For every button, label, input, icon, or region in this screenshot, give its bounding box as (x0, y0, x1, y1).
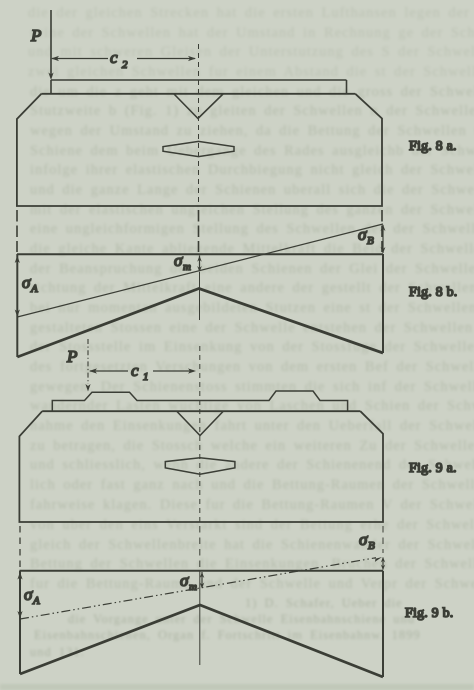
projection dashes left (8a to 8b) (16, 210, 18, 252)
linear stress dash-dot line (Fig 9b) (20, 558, 376, 619)
bearing strip with pads (Fig 9a) (52, 391, 347, 411)
svg-text:σ: σ (180, 571, 189, 590)
svg-text:m: m (189, 581, 197, 593)
left edge (Fig 9b) (19, 571, 21, 674)
svg-text:σ: σ (359, 530, 368, 549)
centering triangle (Fig 9a) (177, 412, 223, 436)
axis top line (Fig 9b) (20, 570, 384, 572)
projection dash centre (9a to 9b) (199, 526, 201, 569)
svg-text:P: P (30, 26, 41, 45)
svg-text:A: A (30, 283, 38, 295)
dimension c1 arrow line (89, 368, 196, 373)
svg-text:Fig. 9 b.: Fig. 9 b. (405, 606, 453, 621)
bolt lens (Fig 8a) (163, 141, 234, 156)
svg-text:Fig. 9 a.: Fig. 9 a. (409, 461, 457, 476)
svg-text:A: A (32, 595, 40, 607)
load line dash-dot (Fig 9a) (85, 339, 90, 392)
centre line through Fig 9b (199, 571, 201, 665)
svg-text:σ: σ (24, 585, 33, 604)
sigma_m arrow (Fig 8b) (197, 256, 202, 273)
svg-text:σ: σ (22, 273, 31, 292)
sigma_A arrow (Fig 8b) (15, 256, 20, 318)
svg-text:P: P (66, 347, 77, 366)
svg-text:c: c (110, 48, 118, 67)
sigma_m arrow (Fig 9b) (200, 572, 205, 589)
centering triangle (Fig 8a) (174, 94, 223, 119)
linear stress line (Fig 8b) (17, 224, 383, 317)
svg-text:m: m (183, 261, 191, 273)
svg-text:2: 2 (122, 59, 128, 71)
right edge (Fig 9b) (382, 571, 384, 677)
sigma_A arrow (Fig 9b) (17, 572, 22, 619)
projection dashes centre (8a to 8b) (198, 210, 200, 252)
centre dashed line (Fig 9) (199, 346, 201, 522)
arrowhead of dash-dot line (Fig 9b) (373, 557, 382, 562)
dimension c2 arrow line (51, 56, 196, 61)
projection dashes right (8a to 8b) (381, 210, 383, 252)
load P line (Fig 8a) (48, 10, 53, 94)
rail outline (Fig 9a) (19, 411, 383, 522)
centre line through Fig 8b (199, 272, 201, 320)
projection dash left (9a to 9b) (19, 526, 21, 569)
svg-text:B: B (367, 235, 374, 247)
contact strip right end (346, 80, 348, 94)
svg-text:c: c (131, 361, 139, 380)
contact strip top line (Fig 8a) (51, 79, 347, 81)
svg-text:Fig. 8 b.: Fig. 8 b. (409, 285, 457, 300)
svg-text:B: B (368, 540, 375, 552)
stress profile V (Fig 8b) (17, 289, 383, 358)
centre dashed line (Fig 8) (198, 44, 200, 205)
projection dash right (9a to 9b) (382, 526, 384, 553)
svg-text:1: 1 (143, 371, 149, 383)
svg-text:Fig. 8 a.: Fig. 8 a. (409, 139, 457, 154)
rail outline (Fig 8a) (17, 94, 382, 206)
svg-text:σ: σ (358, 225, 367, 244)
left edge (Fig 8b) (16, 254, 18, 357)
stress profile V (Fig 9b) (20, 605, 383, 677)
sigma_B arrow (Fig 9b) (381, 557, 385, 570)
sigma_B arrow (Fig 8b) (381, 225, 386, 254)
bolt lens (Fig 9a) (165, 458, 235, 474)
axis top line (Fig 8b) (17, 253, 383, 255)
right edge (Fig 8b) (382, 254, 384, 353)
svg-text:σ: σ (174, 251, 183, 270)
